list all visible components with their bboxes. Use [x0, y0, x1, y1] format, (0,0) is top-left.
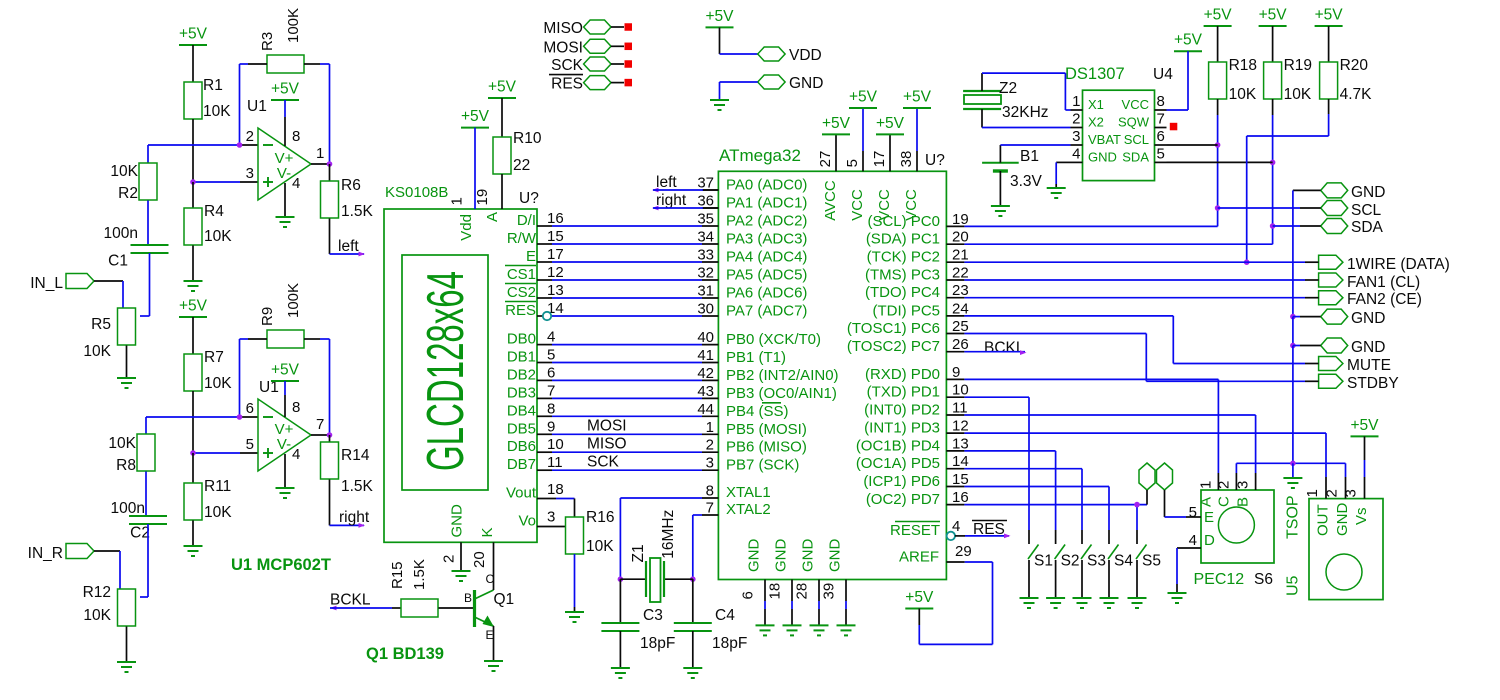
ground under GLCD GND: [452, 571, 471, 581]
svg-text:6: 6: [740, 591, 757, 599]
svg-text:Z2: Z2: [999, 80, 1017, 97]
wire noninverting input row (U1b): [193, 452, 258, 454]
svg-text:GND: GND: [1351, 184, 1385, 201]
svg-text:GND: GND: [1088, 149, 1117, 164]
svg-text:+5V: +5V: [849, 89, 878, 106]
ATmega32 pin 29 AREF: [899, 543, 972, 566]
wire PC4 to FAN2: [964, 297, 1318, 299]
svg-text:DB3: DB3: [507, 384, 536, 401]
wire +5V to AREF: [919, 562, 992, 644]
DS1307 pin 8 VCC: [1122, 93, 1167, 112]
svg-text:24: 24: [952, 300, 969, 317]
svg-text:(TCK) PC2: (TCK) PC2: [867, 249, 940, 266]
resistor R10: [493, 98, 542, 174]
wire GLCD-D/I to PA2: [552, 225, 702, 227]
svg-text:+5V: +5V: [461, 108, 490, 125]
svg-text:DB1: DB1: [507, 349, 536, 366]
svg-text:OUT: OUT: [1315, 504, 1332, 536]
svg-text:R4: R4: [204, 203, 224, 220]
wire GLCD-DB2 to PB2: [552, 379, 702, 381]
svg-text:11: 11: [952, 400, 968, 417]
resistor R7: [184, 317, 232, 392]
svg-text:(RXD) PD0: (RXD) PD0: [865, 366, 940, 383]
svg-text:+5V: +5V: [705, 8, 734, 25]
svg-text:E: E: [1204, 509, 1214, 526]
svg-text:1WIRE (DATA): 1WIRE (DATA): [1347, 256, 1450, 273]
ATmega32 pin 10 (TXD) PD1: [867, 382, 969, 401]
svg-text:Vout: Vout: [506, 485, 537, 502]
wire R14 to right label: [330, 480, 365, 526]
connector MUTE: [1319, 357, 1391, 375]
wire GND rail lower: [1293, 346, 1321, 464]
wire IN_R to R12: [94, 551, 120, 589]
svg-text:10K: 10K: [203, 103, 231, 120]
GLCD pin 15 R/W: [507, 228, 564, 247]
svg-text:10K: 10K: [83, 343, 111, 360]
svg-text:4: 4: [547, 329, 555, 346]
svg-text:(OC2) PD7: (OC2) PD7: [866, 491, 940, 508]
svg-text:U?: U?: [925, 152, 945, 169]
wire R7 to node: [192, 391, 194, 453]
wire inverting input row (U1b): [146, 416, 258, 418]
ATmega32 pin 13 (OC1B) PD4: [856, 435, 969, 454]
svg-text:FAN2 (CE): FAN2 (CE): [1347, 291, 1422, 308]
connector SDA: [1321, 219, 1384, 237]
supply +5V (U1b pin8): [271, 362, 300, 418]
svg-text:PB0 (XCK/T0): PB0 (XCK/T0): [726, 331, 821, 348]
wire PD3 to TSOP OUT: [964, 433, 1326, 477]
wire R2 to C1: [147, 201, 149, 246]
svg-text:XTAL1: XTAL1: [726, 484, 771, 501]
supply +5V (AREF): [905, 589, 934, 609]
svg-text:17: 17: [547, 246, 564, 263]
svg-text:SCK: SCK: [587, 453, 620, 470]
svg-text:17: 17: [871, 151, 888, 168]
svg-text:+5V: +5V: [905, 589, 934, 606]
resistor R1: [184, 45, 231, 120]
svg-text:16MHz: 16MHz: [660, 510, 677, 559]
junction S5: [1134, 502, 1140, 508]
ATmega32 pin 30 PA7 (ADC7): [697, 301, 807, 320]
svg-text:Vdd: Vdd: [458, 214, 475, 241]
wire +5V to VDD: [720, 27, 758, 54]
TSOP pin 1 OUT: [1304, 477, 1332, 536]
svg-text:+5V: +5V: [1350, 417, 1379, 434]
svg-text:DB5: DB5: [507, 420, 536, 437]
ATmega32 pin 39 GND: [821, 539, 856, 636]
svg-text:left: left: [656, 174, 677, 191]
connector IN_R: [28, 544, 94, 563]
connector SCK: [551, 57, 632, 74]
svg-text:C2: C2: [130, 525, 150, 542]
svg-text:7: 7: [316, 416, 324, 433]
svg-text:S3: S3: [1087, 553, 1106, 570]
svg-text:(TMS) PC3: (TMS) PC3: [865, 267, 940, 284]
GLCD pin 4 DB0: [507, 329, 556, 348]
wire B1 to VBAT: [1000, 145, 1070, 163]
wire PC1 riser: [964, 243, 1272, 245]
svg-text:35: 35: [697, 211, 714, 228]
capacitor C3: [601, 579, 675, 652]
svg-text:2: 2: [1215, 481, 1232, 489]
ground (VDD header): [710, 100, 729, 110]
svg-text:PA6 (ADC6): PA6 (ADC6): [726, 285, 807, 302]
wire PD to S4: [964, 487, 1109, 531]
wire GLCD-RES to PA7: [552, 315, 702, 317]
ATmega32 pin 2 PB6 (MISO): [702, 437, 807, 456]
GLCD pin 1 Vdd: [449, 128, 476, 241]
svg-text:6: 6: [547, 364, 555, 381]
TSOP pin 3 Vs: [1343, 477, 1371, 525]
GLCD pin 2 GND: [441, 504, 466, 570]
svg-text:3: 3: [547, 509, 555, 526]
svg-text:8: 8: [292, 399, 300, 416]
svg-text:SDA: SDA: [1351, 219, 1384, 236]
svg-text:+5V: +5V: [903, 89, 932, 106]
GLCD pin 5 DB1: [507, 347, 556, 366]
ground under R11: [184, 521, 203, 557]
svg-text:MISO: MISO: [587, 435, 627, 452]
svg-text:GND: GND: [773, 539, 790, 573]
PEC12 pin 4 D: [1177, 532, 1215, 549]
svg-text:14: 14: [952, 453, 969, 470]
svg-text:DS1307: DS1307: [1065, 65, 1125, 83]
svg-text:PA4 (ADC4): PA4 (ADC4): [726, 249, 807, 266]
wire RESET to arrow: [955, 534, 1011, 539]
svg-text:V-: V-: [277, 165, 291, 182]
svg-text:10K: 10K: [1284, 86, 1312, 103]
wire TSOP GND: [1345, 463, 1347, 477]
svg-text:1: 1: [1304, 489, 1321, 497]
svg-text:10K: 10K: [204, 504, 232, 521]
svg-text:PB7 (SCK): PB7 (SCK): [726, 457, 799, 474]
svg-text:1: 1: [706, 419, 714, 436]
svg-text:13: 13: [547, 282, 564, 299]
svg-text:1: 1: [449, 197, 466, 205]
wire PA1 right: [653, 207, 718, 209]
svg-text:R9: R9: [259, 307, 276, 326]
svg-text:26: 26: [952, 336, 969, 353]
GLCD pin 14 RES: [505, 300, 564, 319]
wire PC3 to FAN1: [964, 279, 1318, 281]
DS1307 pin 6 SCL: [1124, 128, 1167, 147]
svg-text:GND: GND: [1351, 339, 1385, 356]
wire R9 right to output: [304, 339, 330, 435]
svg-text:10K: 10K: [83, 607, 111, 624]
svg-text:(ICP1) PD6: (ICP1) PD6: [863, 473, 940, 490]
ground (GND rail bottom): [1283, 463, 1302, 488]
svg-text:DB0: DB0: [507, 331, 536, 348]
supply +5V (TSOP Vs): [1350, 417, 1379, 437]
ATmega32 pin 31 PA6 (ADC6): [697, 283, 807, 302]
svg-text:23: 23: [952, 282, 969, 299]
ATmega32 pin 41 PB1 (T1): [697, 347, 786, 366]
microcontroller U? ATmega32 box: [718, 146, 946, 580]
svg-text:X1: X1: [1088, 97, 1104, 112]
svg-text:PB1 (T1): PB1 (T1): [726, 349, 786, 366]
svg-text:GND: GND: [448, 504, 465, 538]
ATmega32 pin 26 (TOSC2) PC7: [847, 336, 969, 355]
ATmega32 pin 44 PB4 (SS): [697, 401, 788, 420]
ground under S5: [1128, 598, 1147, 608]
ATmega32 pin 21 (TCK) PC2: [867, 247, 969, 266]
capacitor C4: [674, 579, 748, 652]
svg-text:Vo: Vo: [518, 513, 536, 530]
svg-text:GND: GND: [1334, 503, 1351, 537]
svg-text:PB3 (OC0/AIN1): PB3 (OC0/AIN1): [726, 385, 837, 402]
svg-text:GND: GND: [800, 539, 817, 573]
svg-text:S5: S5: [1142, 553, 1161, 570]
svg-text:(INT0) PD2: (INT0) PD2: [864, 402, 940, 419]
wire GLCD-DB5 to PB5: [552, 433, 702, 435]
svg-text:22: 22: [952, 265, 969, 282]
ATmega32 pin 8 XTAL1: [702, 483, 771, 502]
svg-text:PA7 (ADC7): PA7 (ADC7): [726, 303, 807, 320]
label MOSI on DB5 wire: [587, 418, 627, 435]
svg-text:10K: 10K: [204, 375, 232, 392]
svg-text:S6: S6: [1254, 571, 1273, 588]
junction SDA connector: [1270, 223, 1276, 229]
wire R20 to 1WIRE net: [1247, 99, 1329, 262]
svg-text:GND: GND: [1351, 310, 1385, 327]
svg-text:R10: R10: [513, 130, 542, 147]
svg-text:C3: C3: [643, 607, 663, 624]
supply +5V (R19): [1259, 7, 1288, 27]
label BCKL (xref at PC7): [984, 340, 1025, 357]
svg-text:R20: R20: [1340, 57, 1369, 74]
connector GND (mid): [1321, 309, 1386, 327]
svg-text:10: 10: [547, 436, 564, 453]
ground U1b pin4: [276, 454, 295, 498]
ATmega32 pin 36 PA1 (ADC1): [697, 193, 807, 212]
supply +5V (R18): [1204, 7, 1233, 27]
svg-text:PA2 (ADC2): PA2 (ADC2): [726, 213, 807, 230]
wire PC0 riser: [964, 225, 1217, 227]
resistor R8: [108, 417, 155, 474]
resistor R11: [184, 453, 232, 521]
svg-text:E: E: [526, 248, 536, 265]
svg-text:5: 5: [547, 347, 555, 364]
GLCD pin 18 Vout: [506, 481, 564, 502]
svg-text:6: 6: [246, 400, 254, 417]
wire PD7 row to header pins: [964, 504, 1147, 506]
label U1 MCP602T: [231, 556, 331, 574]
ATmega32 pin 37 PA0 (ADC0): [697, 175, 807, 194]
ATmega32 pin 43 PB3 (OC0/AIN1): [697, 383, 837, 402]
svg-text:VCC: VCC: [1122, 97, 1149, 112]
wire Z2 to X1: [982, 73, 1071, 110]
junction R1/R4/+input: [190, 179, 196, 185]
svg-text:10: 10: [952, 382, 969, 399]
wire GLCD-CS1 to PA5: [552, 279, 702, 281]
label right (xref at PA1): [652, 192, 687, 210]
svg-text:right: right: [656, 192, 687, 209]
PEC12 pin 5 E: [1186, 504, 1214, 526]
svg-text:10K: 10K: [1229, 86, 1257, 103]
svg-text:+5V: +5V: [1174, 32, 1203, 49]
svg-text:42: 42: [697, 365, 714, 382]
wire C2 to R12: [140, 524, 148, 597]
svg-text:SCK: SCK: [551, 57, 584, 74]
svg-text:19: 19: [952, 211, 969, 228]
ATmega32 pin 33 PA4 (ADC4): [697, 247, 807, 266]
svg-text:IN_R: IN_R: [28, 545, 63, 562]
svg-text:GLCD128x64: GLCD128x64: [417, 271, 475, 471]
svg-text:Z1: Z1: [630, 544, 647, 562]
svg-text:PA0 (ADC0): PA0 (ADC0): [726, 177, 807, 194]
svg-text:2: 2: [246, 128, 254, 145]
wire R19 to SDA net: [1272, 99, 1274, 244]
svg-text:4: 4: [1072, 145, 1080, 162]
svg-text:AVCC: AVCC: [822, 180, 839, 221]
ground under R4: [184, 246, 203, 292]
svg-text:U?: U?: [519, 190, 539, 207]
ground U1 pin4: [276, 183, 295, 227]
svg-text:R15: R15: [389, 561, 406, 589]
GLCD pin 8 DB4: [507, 400, 556, 419]
connector GND (header): [758, 75, 824, 92]
supply +5V (R10): [488, 79, 517, 99]
svg-text:7: 7: [547, 382, 555, 399]
wire PD2 to PEC12 B: [964, 415, 1255, 473]
svg-text:20: 20: [952, 229, 969, 246]
svg-text:38: 38: [898, 151, 915, 168]
svg-text:PEC12: PEC12: [1194, 571, 1245, 588]
ATmega32 pin 17 VCC with +5V: [871, 115, 905, 221]
wire DS1307 SDA: [1167, 161, 1273, 163]
svg-text:1.5K: 1.5K: [341, 203, 374, 220]
svg-text:5: 5: [246, 436, 254, 453]
svg-text:S4: S4: [1114, 553, 1133, 570]
resistor R20: [1320, 26, 1373, 103]
svg-text:3: 3: [246, 165, 254, 182]
svg-text:(TXD) PD1: (TXD) PD1: [867, 384, 940, 401]
svg-text:CS2: CS2: [507, 284, 536, 301]
svg-text:R8: R8: [116, 457, 136, 474]
svg-text:15: 15: [547, 228, 564, 245]
svg-text:7: 7: [706, 500, 714, 517]
capacitor C2: [111, 500, 167, 542]
DS1307 pin 7 SQW: [1118, 111, 1167, 130]
junction R19/DS1307-SDA: [1270, 160, 1276, 166]
wire R6 to left label: [330, 219, 365, 255]
svg-text:RES: RES: [505, 302, 536, 319]
label left (xref at PA0): [652, 174, 677, 192]
svg-text:10K: 10K: [204, 228, 232, 245]
svg-text:2: 2: [441, 555, 458, 563]
svg-text:R19: R19: [1284, 57, 1312, 74]
ground under C4: [683, 631, 702, 678]
svg-text:12: 12: [547, 264, 564, 281]
svg-text:37: 37: [697, 175, 714, 192]
GLCD pin 19 A: [474, 174, 502, 222]
svg-text:1: 1: [316, 145, 324, 162]
ATmega32 pin 25 (TOSC1) PC6: [847, 318, 969, 337]
ATmega32 pin 22 (TMS) PC3: [865, 265, 969, 284]
svg-text:PB4 (SS): PB4 (SS): [726, 403, 789, 420]
label MISO on DB6 wire: [587, 435, 627, 452]
wire PD to S1: [964, 397, 1029, 530]
switch S4: [1108, 530, 1133, 598]
wire PD to S3: [964, 469, 1082, 530]
TSOP pin 2 GND: [1324, 477, 1352, 536]
svg-text:8: 8: [1157, 93, 1165, 110]
svg-text:19: 19: [474, 189, 491, 206]
svg-text:28: 28: [794, 583, 811, 600]
svg-text:12: 12: [952, 418, 969, 435]
wire GLCD-DB3 to PB3: [552, 397, 702, 399]
svg-text:R3: R3: [259, 32, 276, 51]
svg-text:U1 MCP602T: U1 MCP602T: [231, 556, 331, 574]
junction GND net at TSOP: [1290, 461, 1296, 467]
ground under PEC12 D: [1168, 593, 1187, 603]
svg-text:1: 1: [1197, 481, 1214, 489]
IR receiver U5 TSOP box: [1285, 495, 1384, 599]
GLCD pin 9 DB5: [507, 418, 556, 437]
resistor R3: [259, 8, 304, 73]
svg-text:39: 39: [821, 583, 838, 600]
svg-text:right: right: [339, 509, 370, 526]
svg-text:100n: 100n: [111, 500, 145, 517]
svg-text:K: K: [479, 527, 496, 537]
ATmega32 pin 11 (INT0) PD2: [864, 400, 967, 419]
resistor R6: [321, 164, 374, 220]
svg-text:SCL: SCL: [1124, 132, 1149, 147]
svg-text:VBAT: VBAT: [1088, 132, 1121, 147]
ground under S2: [1046, 598, 1065, 608]
label right (xref): [339, 509, 370, 528]
svg-text:8: 8: [292, 128, 300, 145]
svg-text:13: 13: [952, 435, 969, 452]
wire R3 left to inverting input: [240, 64, 268, 145]
svg-text:DB4: DB4: [507, 402, 536, 419]
svg-text:ATmega32: ATmega32: [719, 146, 801, 165]
ATmega32 pin 12 (INT1) PD3: [864, 418, 969, 437]
wire output to R6: [311, 163, 330, 165]
svg-text:100K: 100K: [285, 283, 302, 318]
svg-text:(TOSC1) PC6: (TOSC1) PC6: [847, 320, 940, 337]
junction GND rail mid: [1290, 314, 1296, 320]
GLCD module U? (KS0108B) box: [384, 184, 539, 542]
svg-text:TSOP: TSOP: [1285, 495, 1302, 539]
svg-text:GND: GND: [789, 75, 823, 92]
svg-text:PB5 (MOSI): PB5 (MOSI): [726, 421, 807, 438]
ground under C3: [611, 631, 630, 678]
wire emitter to ground: [493, 626, 495, 661]
ATmega32 pin 35 PA2 (ADC2): [697, 211, 807, 230]
wire output to R14: [311, 434, 330, 436]
capacitor C1: [104, 225, 169, 270]
wire BCKL to R15: [330, 607, 401, 609]
svg-text:+5V: +5V: [1315, 7, 1344, 24]
svg-text:3.3V: 3.3V: [1010, 173, 1043, 190]
svg-text:+5V: +5V: [876, 115, 905, 132]
DS1307 pin 1 X1: [1071, 93, 1104, 112]
ground under S1: [1020, 598, 1039, 608]
wire GND conn to rail: [1293, 190, 1321, 316]
svg-text:6: 6: [1157, 128, 1165, 145]
junction 1WIRE: [1244, 259, 1250, 265]
wire noninverting input row: [193, 181, 258, 183]
wire C1 to R5: [140, 253, 150, 316]
svg-text:S1: S1: [1034, 553, 1053, 570]
svg-text:MISO: MISO: [543, 20, 583, 37]
crystal Z1 16MHz: [620, 510, 692, 602]
wire Vo to R16: [564, 526, 567, 528]
svg-text:4: 4: [292, 175, 300, 192]
svg-text:44: 44: [697, 401, 714, 418]
wire GLCD-R/W to PA3: [552, 243, 702, 245]
